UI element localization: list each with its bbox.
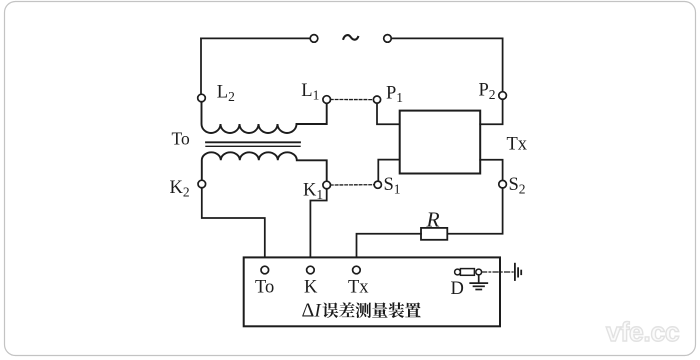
node P1 terminal [373, 96, 380, 103]
wire box to S2 [480, 160, 502, 181]
svg-text:D: D [451, 279, 464, 299]
node P2 terminal [499, 92, 507, 100]
wire left drop to L2 [200, 38, 202, 94]
wire K1 to S1 (dashed) [331, 184, 375, 186]
external ground (rotated) [515, 264, 521, 280]
winding T0 primary (L2-L1) [202, 102, 327, 133]
node source terminal left [310, 35, 318, 43]
svg-text:R: R [426, 208, 440, 232]
label AC source ~ [343, 35, 359, 40]
label title 误差测量装置 (vector glyphs) [322, 302, 420, 318]
wire K2 to To terminal [202, 188, 265, 261]
svg-text:K: K [304, 278, 318, 298]
wire resistor to Tx terminal [357, 234, 422, 261]
svg-text:vfe.cc: vfe.cc [606, 317, 679, 347]
resistor R [421, 228, 447, 240]
measuring device box [244, 257, 500, 326]
node K terminal [307, 266, 315, 274]
ground under D [470, 275, 487, 290]
wire S1 to box [378, 160, 399, 182]
node S2 terminal [499, 180, 507, 188]
svg-text:Tx: Tx [348, 278, 369, 298]
wire K1 to K terminal [310, 189, 326, 261]
core T0 line 2 [206, 145, 300, 147]
wire top rail right segment [391, 37, 502, 39]
node K1 terminal [323, 181, 331, 189]
node L2 terminal [198, 94, 206, 102]
link D symbol [455, 269, 482, 276]
winding T0 secondary (K2-K1) [202, 152, 327, 181]
node To terminal [261, 266, 269, 274]
svg-text:ΔI: ΔI [302, 300, 323, 322]
wire right drop to P2 [502, 38, 504, 91]
svg-text:To: To [172, 129, 190, 149]
wire top rail left segment [201, 37, 310, 39]
node source terminal right [384, 35, 392, 43]
svg-text:To: To [255, 278, 274, 298]
wire P1 to box [377, 103, 400, 124]
wire P2 to box [480, 99, 502, 124]
node L1 terminal [323, 96, 331, 104]
wire L1 to P1 (dashed) [331, 99, 374, 101]
wire S2 down to resistor [447, 188, 502, 234]
node K2 terminal [198, 180, 206, 188]
transformer under test Tx box [400, 111, 481, 174]
core T0 line 1 [206, 141, 300, 143]
wire D to external ground (dash-dot) [482, 271, 513, 273]
node Tx terminal [353, 266, 361, 274]
node S1 terminal [374, 181, 381, 188]
svg-text:Tx: Tx [507, 135, 528, 155]
